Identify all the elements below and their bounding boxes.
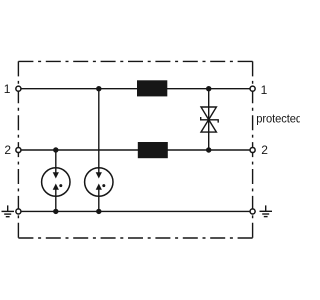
terminal 2 right (250, 147, 255, 152)
junction on line 1 at TVS (206, 86, 211, 91)
svg-text:2: 2 (4, 143, 11, 157)
svg-text:1: 1 (4, 82, 11, 96)
inductor L1 (137, 80, 167, 96)
ground symbol left (2, 205, 15, 216)
wire line 1 (18, 88, 252, 90)
terminal 1 left (16, 86, 21, 91)
inductor L2 (138, 142, 168, 158)
terminal 2 left (16, 147, 21, 152)
svg-text:2: 2 (261, 143, 268, 157)
terminal PE right (250, 209, 255, 214)
suppressor diode V1 (bidirectional TVS) (201, 107, 219, 132)
enclosure border top (18, 60, 252, 62)
junction on line 2 at TVS (206, 147, 211, 152)
junction on PE at F2 (96, 209, 101, 214)
svg-text:1: 1 (261, 83, 268, 97)
junction on line 1 at F2 (96, 86, 101, 91)
svg-text:protected: protected (256, 112, 300, 126)
wire GDT F2 branch (98, 89, 100, 212)
junction on PE at F1 (53, 209, 58, 214)
wire line 2 (18, 149, 252, 151)
ground symbol right (260, 205, 273, 216)
enclosure border right (252, 61, 254, 238)
junction on line 2 at F1 (53, 147, 58, 152)
enclosure border left (17, 61, 19, 238)
gas discharge tube F2 (85, 168, 113, 197)
terminal 1 right (250, 86, 255, 91)
wire GDT F1 branch (55, 150, 57, 211)
terminal PE left (16, 209, 21, 214)
gas discharge tube F1 (42, 168, 70, 197)
wire PE line (18, 210, 252, 212)
wire TVS branch (208, 89, 210, 150)
enclosure border bottom (18, 237, 252, 239)
